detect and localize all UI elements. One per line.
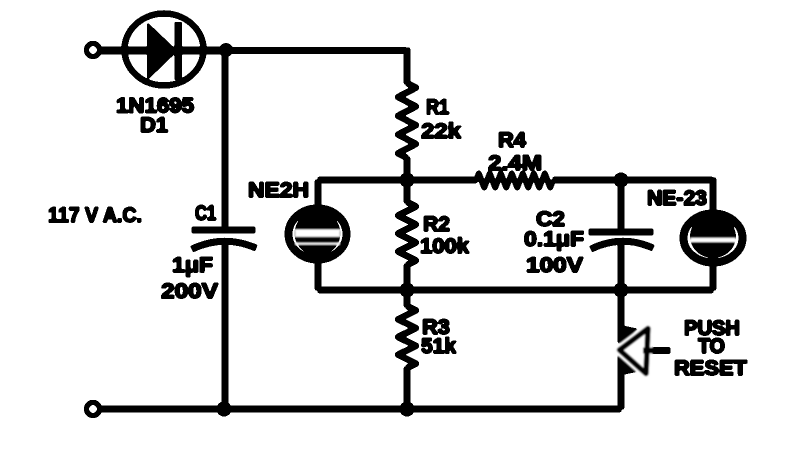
lamp NE-23 electrodes [691, 216, 736, 258]
wire R3 lower lead [404, 367, 410, 409]
diode D1 triangle anode [148, 23, 178, 80]
lamp NE2H electrodes [295, 212, 340, 255]
wire switch column upper [618, 290, 624, 343]
wire NE-23 bottom lead [710, 264, 716, 290]
switch fixed contact lower [620, 356, 639, 376]
wire switch column lower [618, 355, 624, 409]
lamp NE-23 outer circle [684, 214, 743, 263]
node mid rail left segment [318, 177, 477, 183]
svg-text:D1: D1 [140, 114, 168, 137]
svg-text:200V: 200V [161, 280, 218, 303]
svg-text:100V: 100V [526, 254, 583, 277]
wire R1 column upper lead [404, 48, 410, 84]
capacitor C1 top plate [192, 227, 255, 233]
wire NE2H bottom lead [315, 261, 321, 290]
switch actuator triangle [620, 329, 649, 374]
svg-text:2.4M: 2.4M [488, 152, 542, 175]
svg-text:TO: TO [698, 335, 725, 358]
svg-text:0.1μF: 0.1μF [524, 228, 584, 251]
terminal bottom-left [86, 402, 99, 415]
svg-text:NE-23: NE-23 [647, 187, 707, 210]
junction dot R2/R3 node [400, 283, 414, 297]
junction dot R1/R2/R4/NE2H node [400, 173, 414, 187]
wire R2 lower lead [404, 264, 410, 290]
switch actuator bar [643, 348, 670, 354]
resistor R4 [476, 174, 553, 188]
svg-text:NE2H: NE2H [248, 179, 309, 202]
resistor R3 [398, 306, 416, 368]
junction dot R4/C2/NE-23 node [614, 173, 628, 187]
svg-text:117 V A.C.: 117 V A.C. [48, 204, 142, 227]
junction dot C1 bottom [217, 402, 231, 416]
capacitor C2 curved plate [591, 241, 653, 249]
wire R1 lower lead [404, 157, 410, 180]
lamp NE2H outer circle [289, 209, 347, 260]
capacitor C2 top plate [589, 229, 653, 235]
capacitor C1 curved plate [192, 241, 256, 249]
svg-text:R2: R2 [423, 213, 450, 236]
wire C1 branch lower [222, 242, 228, 409]
wire bottom bus [99, 406, 621, 412]
svg-text:1μF: 1μF [172, 254, 213, 277]
switch actuator triangle white separation [620, 329, 649, 374]
wire R3 upper lead [404, 290, 410, 307]
svg-text:51k: 51k [421, 335, 456, 358]
wire R2 upper lead [404, 180, 410, 203]
wire mid rail right segment to NE-23 corner [553, 177, 713, 183]
resistor R1 [398, 83, 416, 158]
svg-text:100k: 100k [420, 235, 469, 258]
junction dot R3 bottom [400, 402, 414, 416]
svg-text:22k: 22k [421, 120, 461, 143]
svg-text:R1: R1 [426, 96, 449, 119]
wire NE-23 top lead [710, 178, 716, 211]
terminal top-left input [86, 43, 99, 56]
wire C1 branch upper [222, 50, 228, 229]
diode D1 circle [125, 14, 204, 86]
svg-text:RESET: RESET [674, 357, 747, 380]
junction dot C2/switch node [614, 283, 628, 297]
node lower rail [318, 287, 713, 293]
node junction at top of C1 branch [220, 44, 233, 57]
resistor R2 [398, 202, 416, 265]
wire NE2H top lead [315, 180, 321, 207]
svg-text:R4: R4 [498, 129, 526, 152]
svg-text:C1: C1 [195, 202, 216, 225]
switch fixed contact upper [621, 326, 638, 344]
wire top bus from input terminal through D1 to corner above R1 [99, 47, 230, 54]
wire C2 branch lower [618, 243, 624, 290]
wire C2 branch upper [618, 180, 624, 230]
diode D1 cathode bar [175, 23, 182, 80]
